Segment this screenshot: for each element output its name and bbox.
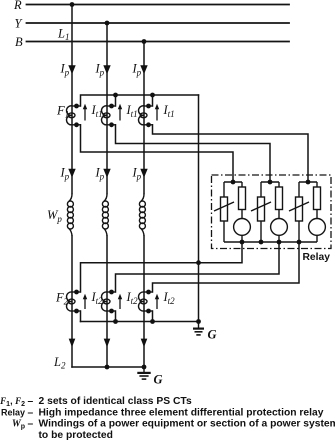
arrow line3 bottom: [141, 339, 148, 348]
wire neutral descent to ground: [198, 95, 200, 322]
resistor element 3: [314, 187, 321, 210]
wire F2 CT3 bottom tap descent: [152, 311, 154, 322]
svg-text:–: –: [28, 419, 34, 430]
wire relay bus to F2 CT3 top tap: [153, 242, 300, 292]
arrow It1 CT2: [119, 109, 121, 121]
svg-text:F2: F2: [55, 291, 69, 307]
svg-text:to be protected: to be protected: [39, 430, 113, 441]
relay bottom bus: [224, 241, 317, 243]
svg-text:F1: F1: [56, 104, 69, 120]
CT F2 phase B winding: [139, 292, 144, 311]
node F2 CT2 taps: [109, 290, 114, 295]
node F1 CT2 taps: [109, 104, 114, 109]
svg-text:Ip: Ip: [132, 62, 142, 78]
CT F2 phase Y winding: [102, 292, 107, 311]
relay coil element 1: [234, 219, 251, 236]
wire F1 secondary neutral rail: [81, 95, 199, 106]
svg-text:B: B: [15, 35, 23, 49]
relay bus dots: [240, 240, 245, 245]
svg-text:Wp: Wp: [47, 208, 62, 224]
node F2 neutral joint CT2: [113, 319, 118, 324]
Wp winding coils: [67, 194, 145, 237]
CT F2 phase R winding: [67, 292, 72, 311]
node F1 CT1 taps: [74, 104, 79, 109]
svg-text:It2: It2: [126, 290, 139, 306]
arrow It1 CT1: [84, 109, 86, 121]
svg-text:It2: It2: [163, 290, 176, 306]
svg-text:Relay: Relay: [1, 407, 25, 417]
wire L2 bus: [72, 366, 144, 368]
svg-text:It1: It1: [163, 103, 175, 119]
relay element input dots: [231, 180, 311, 245]
It2 arrows: [83, 294, 159, 309]
wire feeder line 2 lower: [106, 236, 108, 367]
winding Wp line1: [69, 194, 72, 202]
relay box dash-dot border: [212, 175, 332, 249]
svg-text:2 sets of identical class PS C: 2 sets of identical class PS CTs: [39, 396, 192, 407]
relay element 3: [289, 182, 325, 242]
svg-text:Wp: Wp: [12, 419, 25, 431]
arrow Ip line1 mid: [68, 169, 75, 178]
svg-text:F1, F2: F1, F2: [0, 396, 25, 408]
resistor element 1: [239, 187, 246, 210]
arrow It2 CT3: [156, 299, 158, 309]
arrow Ip line1 top: [68, 65, 75, 74]
winding Wp line3: [141, 194, 144, 202]
wire F1 CT3 top tap riser: [152, 95, 154, 106]
arrow line2 bottom: [104, 339, 111, 348]
svg-text:L1: L1: [57, 27, 69, 43]
relay coil element 3: [309, 219, 326, 236]
svg-text:Ip: Ip: [95, 62, 105, 78]
wire F1 CT3 to relay element 3: [153, 125, 309, 182]
svg-text:Ip: Ip: [132, 166, 142, 182]
ground G2 (L2): [137, 367, 150, 379]
wire F2 neutral rail: [81, 321, 199, 323]
wire element 2 top branch: [261, 181, 279, 183]
node tap B: [142, 39, 147, 44]
svg-text:–: –: [28, 407, 34, 418]
node F2 neutral joint CT3: [150, 319, 155, 324]
phase bus Y: [27, 22, 290, 24]
svg-text:Ip: Ip: [95, 166, 105, 182]
arrow Ip line2 mid: [103, 169, 110, 178]
arrow It2 CT1: [84, 299, 86, 309]
arrow line1 bottom: [69, 339, 76, 348]
It1 arrows: [83, 104, 159, 121]
arrow It1 CT3: [156, 109, 158, 121]
wire element 3 top branch: [299, 181, 317, 183]
arrow Ip line3 mid: [140, 169, 147, 178]
svg-text:It2: It2: [91, 290, 104, 306]
wire F1 CT1 to relay element 1: [81, 125, 234, 182]
svg-text:Windings of a power equipment: Windings of a power equipment or section…: [39, 419, 335, 430]
svg-text:G: G: [208, 328, 217, 342]
svg-text:R: R: [13, 0, 22, 12]
Ip arrowheads row 1: [68, 65, 147, 347]
varistor element 3: [296, 197, 303, 221]
CT F2 tap dots: [74, 290, 151, 314]
svg-text:L2: L2: [53, 355, 66, 371]
CT F1 phase B winding: [139, 106, 144, 125]
winding Wp line2: [104, 194, 107, 202]
wire feeder line 2 upper: [106, 23, 108, 194]
wire relay bus to F2 CT1 top tap: [81, 242, 243, 292]
svg-text:It1: It1: [91, 103, 103, 119]
svg-text:Ip: Ip: [60, 62, 70, 78]
ground G1 (neutral): [193, 322, 204, 335]
wire F1 CT2 top tap riser: [115, 95, 117, 106]
wire F2 CT2 bottom tap descent: [115, 311, 117, 322]
node F2 CT3 taps: [146, 290, 151, 295]
relay element 1: [214, 182, 250, 242]
CT F1 phase Y winding: [102, 106, 107, 125]
svg-text:G: G: [154, 373, 163, 387]
svg-text:Relay: Relay: [303, 252, 331, 263]
svg-text:High impedance three element d: High impedance three element differentia…: [39, 407, 324, 418]
wire F2 CT1 bottom tap descent: [80, 311, 82, 322]
svg-text:–: –: [28, 396, 34, 407]
node F2 CT1 taps: [74, 290, 79, 295]
CT F1 tap dots: [74, 104, 151, 128]
wire element 1 top branch: [224, 181, 242, 183]
node tap Y: [105, 21, 110, 26]
node neutral x F2 rail joint: [196, 260, 201, 265]
relay coil element 2: [271, 219, 288, 236]
wire feeder line 1 lower: [71, 236, 73, 367]
node tap R: [70, 2, 75, 7]
svg-text:It1: It1: [126, 103, 138, 119]
node F1 rail joint CT2: [113, 93, 118, 98]
phase bus B: [27, 41, 290, 43]
CT symbols F2 row: [67, 292, 153, 311]
wire feeder line 3 lower: [143, 236, 145, 367]
CT symbols F1 row: [67, 106, 153, 125]
relay element 2: [251, 182, 287, 242]
node L2 joint line3: [142, 365, 147, 370]
node F1 CT3 taps: [146, 104, 151, 109]
wire feeder line 3 upper: [143, 42, 145, 194]
CT F1 phase R winding: [67, 106, 72, 125]
svg-text:Y: Y: [15, 16, 24, 30]
arrow It2 CT2: [119, 299, 121, 309]
node neutral ground joint: [196, 319, 201, 324]
phase bus R: [27, 4, 290, 6]
wire relay bus to F2 CT2 top tap: [116, 242, 280, 292]
node F1 rail joint CT3: [150, 93, 155, 98]
arrow Ip line3 top: [140, 65, 147, 74]
varistor element 1: [221, 197, 228, 221]
wire F1 CT2 to relay element 2: [116, 125, 271, 182]
wire feeder line 1 upper: [71, 5, 73, 194]
resistor element 2: [276, 187, 283, 210]
varistor element 2: [258, 197, 265, 221]
svg-text:Ip: Ip: [60, 166, 70, 182]
arrow Ip line2 top: [103, 65, 110, 74]
node L2 joint line2: [105, 365, 110, 370]
